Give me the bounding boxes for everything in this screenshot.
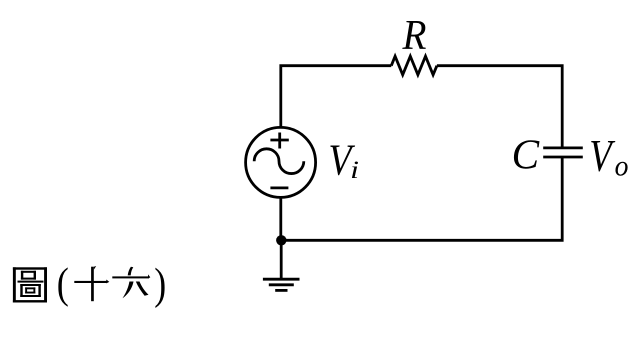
source minus sign	[270, 186, 288, 189]
svg-text:o: o	[615, 149, 629, 182]
ac source Vi circle	[246, 127, 316, 197]
ground bar 3	[275, 289, 287, 292]
node junction dot	[276, 235, 286, 245]
ground bar 2	[269, 283, 294, 286]
wire source bottom stub	[279, 198, 282, 240]
wire right-lower and bottom	[281, 157, 562, 240]
resistor R	[391, 56, 437, 75]
svg-text:C: C	[512, 132, 540, 179]
source sine wave	[254, 149, 304, 174]
capacitor C top plate	[543, 146, 583, 149]
caption glyph 十	[74, 266, 109, 301]
capacitor C bottom plate	[543, 156, 583, 159]
svg-text:R: R	[402, 12, 427, 59]
svg-text:(: (	[57, 259, 69, 308]
svg-text:V: V	[589, 130, 616, 180]
svg-text:i: i	[350, 156, 359, 184]
caption glyph 圖	[13, 267, 47, 302]
wire top-right segment	[437, 66, 562, 149]
caption glyph 六	[112, 267, 150, 299]
source plus sign	[270, 133, 288, 149]
ground stub wire	[280, 240, 283, 278]
svg-text:): )	[154, 259, 166, 309]
wire top-left segment	[281, 66, 392, 127]
ground bar 1	[263, 278, 300, 281]
